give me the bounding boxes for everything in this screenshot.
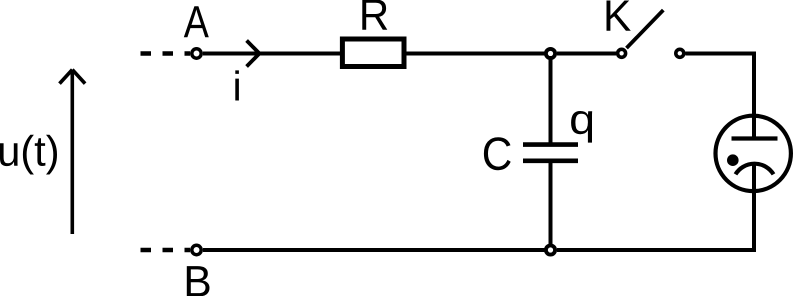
resistor R [342,39,404,67]
bottom wire junction to lamp [557,248,756,252]
label B [187,266,210,296]
capacitor top wire [549,56,553,143]
bottom wire B to junction [203,248,548,252]
label q [571,111,592,143]
lamp top electrode [732,136,778,140]
switch K right contact [676,49,684,57]
lamp gas dot [727,154,739,166]
label K [607,1,631,31]
label i [235,70,239,100]
label R [362,0,387,30]
wire resistor to node [407,52,549,56]
capacitor plate bottom [523,159,578,164]
terminal B dashed lead [141,248,191,252]
lamp (discharge tube) envelope [716,116,791,191]
current arrow i [247,41,260,67]
switch K left contact [618,49,626,57]
capacitor bottom wire [549,163,553,248]
switch K blade [627,10,664,48]
label A [184,6,209,37]
terminal B circle [192,245,201,254]
label C [484,137,511,170]
wire A to resistor [203,52,341,56]
lamp bottom electrode arc [736,164,774,175]
wire node to switch [557,52,616,56]
terminal A dashed lead [141,51,191,55]
terminal A circle [192,49,201,58]
lamp bottom lead [752,165,756,253]
lamp top lead [752,52,756,140]
wire switch to corner [686,52,757,56]
node top junction [546,49,555,58]
voltage arrow u(t) [60,70,86,234]
node bottom junction [546,245,555,254]
label u(t) [0,135,57,175]
capacitor plate top [523,142,578,147]
